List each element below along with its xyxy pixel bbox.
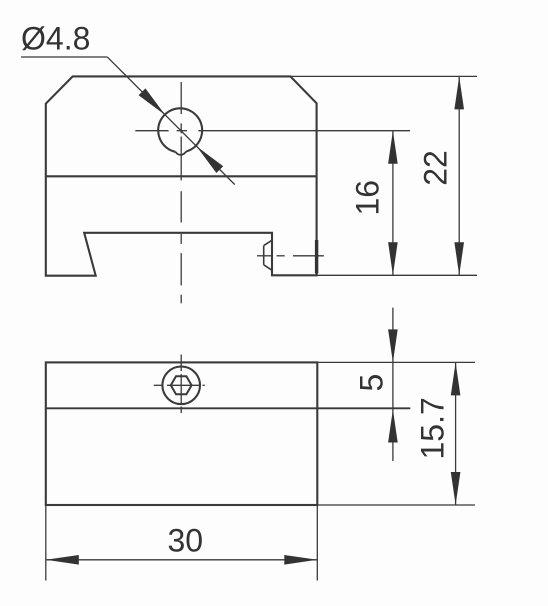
extension line right of 30 <box>316 505 318 581</box>
extension line bottom right <box>317 274 477 276</box>
extension line top right <box>290 75 477 77</box>
set screw side profile in groove <box>264 240 272 270</box>
svg-text:16: 16 <box>350 180 386 216</box>
extension line left of 30 <box>45 505 47 581</box>
dimension 30 <box>46 559 318 561</box>
dimension 16 <box>392 131 394 276</box>
screw vertical center line <box>180 355 182 414</box>
extension line top of 15.7 <box>317 361 475 363</box>
screw axis center line <box>257 255 324 257</box>
svg-text:Ø4.8: Ø4.8 <box>21 21 90 57</box>
leader arrow upper <box>139 88 166 115</box>
horizontal center line of hole + extension for dim 16 <box>135 130 410 132</box>
dimension 15.7 <box>455 362 457 505</box>
top view outline <box>46 76 317 275</box>
svg-text:15.7: 15.7 <box>415 397 451 459</box>
svg-text:5: 5 <box>354 374 390 392</box>
dimension 22 <box>458 76 460 275</box>
svg-text:22: 22 <box>418 150 454 186</box>
screw horizontal center line <box>154 384 205 386</box>
hex socket <box>171 376 192 394</box>
bottom view outline <box>46 362 318 505</box>
leader arrow lower <box>197 146 224 173</box>
extension line bottom of 15.7 <box>317 504 475 506</box>
bottom view step line <box>46 407 411 409</box>
top view mid horizontal edge <box>46 175 317 177</box>
screw head circle <box>162 367 200 405</box>
vertical center line of hole <box>180 82 182 303</box>
svg-text:30: 30 <box>168 523 204 559</box>
thick thread segment on right edge <box>315 240 318 274</box>
dimension 5 <box>392 308 394 461</box>
leader line for O4.8 <box>21 56 108 58</box>
hole circle O4.8 with bottom relief bump <box>158 108 202 151</box>
